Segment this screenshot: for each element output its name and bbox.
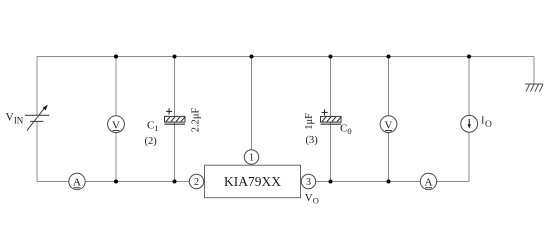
ammeter A1: [69, 173, 85, 189]
wire Vin to bottom rail: [36, 122, 38, 182]
wire Io bottom riser: [468, 132, 470, 181]
wire pin1 drop: [251, 57, 253, 150]
wire Io top riser: [468, 57, 470, 116]
node pin1: [244, 150, 258, 164]
svg-text:V: V: [385, 119, 393, 131]
wire left drop to Vin source: [36, 57, 38, 116]
source VIN arrowhead: [43, 105, 48, 111]
svg-text:1: 1: [249, 153, 254, 164]
svg-text:IO: IO: [481, 116, 492, 131]
junction bottom V2: [387, 180, 391, 184]
junction top C1: [173, 55, 177, 59]
junction top C0: [329, 55, 333, 59]
wire capacitor C0 branch: [330, 57, 332, 182]
voltmeter V1 label: [112, 119, 120, 131]
svg-text:(2): (2): [145, 136, 158, 147]
ammeter A2: [420, 173, 436, 189]
wire voltmeter V1 bottom: [115, 133, 117, 182]
junction bottom C1: [173, 180, 177, 184]
svg-text:V: V: [112, 119, 120, 131]
ammeter A2 label: [425, 177, 433, 189]
wire bottom rail A1 to pin2: [85, 181, 189, 183]
junction top pin1: [250, 55, 254, 59]
svg-text:C0: C0: [340, 123, 352, 137]
junction top Io: [467, 55, 471, 59]
svg-text:3: 3: [306, 177, 311, 188]
wire voltmeter V2 top: [388, 57, 390, 116]
svg-text:A: A: [73, 177, 81, 189]
ammeter A1 label: [73, 177, 81, 189]
capacitor C0 plus sign: [322, 109, 328, 115]
capacitor C1 plus sign: [166, 108, 172, 114]
junction bottom C0: [329, 180, 333, 184]
wire top rail GND net: [37, 56, 534, 58]
wire voltmeter V1 top: [115, 57, 117, 116]
capacitor C1 electrolytic body: [165, 116, 186, 124]
svg-text:VIN: VIN: [6, 112, 24, 126]
node pin3: [301, 174, 315, 188]
junction top V2: [387, 55, 391, 59]
current source IO: [461, 115, 478, 132]
junction bottom V1: [114, 180, 118, 184]
voltmeter V2 label: [385, 119, 393, 131]
svg-text:VO: VO: [305, 192, 319, 206]
svg-text:KIA79XX: KIA79XX: [224, 174, 281, 189]
wire bottom rail segment left: [37, 181, 69, 183]
ground: [525, 84, 543, 92]
wire bottom rail pin3 to A2: [316, 181, 421, 183]
regulator U1 KIA79XX: [205, 165, 301, 198]
capacitor C1 refdes: [147, 120, 159, 134]
wire voltmeter V2 bottom: [388, 133, 390, 182]
svg-text:C1: C1: [147, 120, 159, 134]
svg-text:2: 2: [194, 177, 199, 188]
svg-text:2.2μF: 2.2μF: [190, 107, 201, 132]
node pin2: [189, 174, 203, 188]
junction top V1: [114, 55, 118, 59]
svg-text:(3): (3): [306, 135, 319, 146]
source VIN variable battery: [25, 108, 49, 131]
voltmeter V2: [380, 116, 397, 133]
wire capacitor C1 branch: [174, 57, 176, 182]
voltmeter V1: [108, 116, 125, 133]
wire ground drop: [533, 57, 535, 85]
capacitor C0 refdes: [340, 123, 352, 137]
svg-text:1μF: 1μF: [304, 113, 315, 130]
wire bottom rail A2 to Io corner: [437, 181, 469, 183]
svg-text:A: A: [425, 177, 433, 189]
capacitor C0 electrolytic body: [321, 116, 342, 124]
